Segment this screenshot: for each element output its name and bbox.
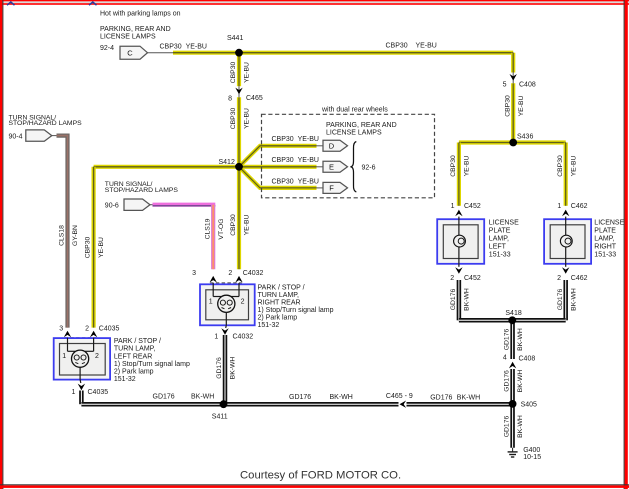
svg-text:LAMP,: LAMP,: [594, 236, 614, 243]
svg-text:2: 2: [450, 275, 454, 282]
svg-text:S412: S412: [219, 159, 235, 166]
labels GD176 BK-WH S405 to ground: [504, 415, 525, 438]
svg-text:151-32: 151-32: [114, 376, 136, 383]
svg-text:BK-WH: BK-WH: [517, 370, 524, 393]
svg-text:YE-BU: YE-BU: [518, 96, 525, 117]
connector 90-6: [124, 199, 150, 210]
arrow into C408 bottom: [509, 362, 516, 369]
svg-text:C4035: C4035: [88, 389, 109, 396]
svg-text:C4035: C4035: [99, 326, 120, 333]
labels CBP30 YE-BU to right rear lamp: [230, 214, 251, 236]
svg-text:5: 5: [503, 82, 507, 89]
svg-text:S411: S411: [212, 414, 228, 421]
lamp element left license: [454, 217, 466, 264]
svg-text:1: 1: [209, 299, 213, 306]
blue chevron mark right on top border: [89, 2, 97, 5]
license plate lamp left box: [437, 219, 484, 264]
wire GD176 BK-WH C408 down through S405 to ground: [510, 369, 515, 448]
arrow pin 1 C4035: [78, 384, 85, 391]
splice S441: [235, 49, 243, 57]
svg-text:CBP30: CBP30: [557, 155, 564, 177]
svg-text:CBP30: CBP30: [85, 237, 92, 259]
dashed connector line C4032: [210, 282, 242, 284]
connector D: [323, 140, 348, 151]
svg-text:LICENSE: LICENSE: [489, 220, 519, 227]
connector E: [323, 161, 348, 172]
lead below left license lamp: [458, 264, 460, 267]
wire CBP30 YE-BU C465 down to S412: [237, 97, 241, 167]
lead from connector 90-4: [52, 135, 59, 137]
wire CLS19 VT-OG down to right rear lamp pin 3: [211, 205, 215, 270]
blue chevron mark left on top border: [7, 2, 15, 5]
svg-text:92-6: 92-6: [362, 164, 376, 171]
svg-text:PARK / STOP /: PARK / STOP /: [114, 338, 161, 345]
svg-text:CBP30: CBP30: [230, 62, 237, 84]
wire CBP30 YE-BU S412 down to right rear lamp pin 2: [237, 167, 241, 269]
svg-text:C452: C452: [464, 203, 481, 210]
svg-text:YE-BU: YE-BU: [98, 237, 105, 258]
lamp element right license: [560, 217, 572, 264]
page frame red border right: [624, 0, 628, 489]
labels CLS18 GY-BN: [59, 225, 80, 246]
wire CLS19 VT-OG horizontal: [153, 205, 216, 206]
wire CBP30 YE-BU S441 down to C465: [237, 53, 241, 86]
svg-text:1) Stop/Turn signal lamp: 1) Stop/Turn signal lamp: [258, 307, 334, 314]
svg-text:CLS18: CLS18: [59, 225, 66, 246]
svg-text:3: 3: [192, 270, 196, 277]
arrow pin 2 C4032: [235, 276, 242, 283]
svg-text:YE-BU: YE-BU: [244, 62, 251, 83]
arrow pin 1 C462: [562, 210, 569, 217]
labels GD176 BK-WH C408 to S405: [504, 370, 525, 393]
svg-text:TURN LAMP,: TURN LAMP,: [258, 292, 300, 299]
svg-text:F: F: [329, 184, 334, 193]
svg-text:LICENSE: LICENSE: [594, 220, 624, 227]
text park stop turn left rear: [114, 338, 190, 383]
lead into connector F: [317, 187, 323, 189]
splice S418: [508, 316, 516, 324]
svg-text:STOP/HAZARD LAMPS: STOP/HAZARD LAMPS: [9, 120, 83, 127]
license plate lamp right box: [544, 219, 591, 264]
svg-text:STOP/HAZARD LAMPS: STOP/HAZARD LAMPS: [105, 187, 179, 194]
svg-text:1: 1: [451, 203, 455, 210]
svg-text:92-4: 92-4: [100, 45, 114, 52]
labels CBP30 YE-BU left branch: [85, 237, 106, 259]
wire GD176 BK-WH below left rear lamp: [79, 391, 84, 405]
brace grouping D E F: [350, 142, 356, 193]
svg-text:BK-WH: BK-WH: [330, 394, 353, 401]
svg-text:BK-WH: BK-WH: [191, 394, 214, 401]
text license plate lamp left: [489, 220, 519, 259]
svg-text:2: 2: [228, 270, 232, 277]
splice S412: [235, 163, 243, 171]
svg-text:CBP30: CBP30: [230, 214, 237, 236]
arrow into C465-9: [400, 401, 407, 408]
svg-text:151-33: 151-33: [594, 252, 616, 259]
page frame red border top: [0, 0, 629, 5]
svg-text:GD176: GD176: [216, 357, 223, 379]
wire CBP30 YE-BU from C to S441 to corner: [173, 51, 513, 55]
svg-text:C452: C452: [464, 275, 481, 282]
svg-text:GD176: GD176: [504, 329, 511, 351]
svg-text:C462: C462: [571, 275, 588, 282]
svg-text:S405: S405: [521, 402, 537, 409]
svg-text:LICENSE LAMPS: LICENSE LAMPS: [326, 130, 382, 137]
svg-text:C4032: C4032: [243, 270, 264, 277]
svg-text:LICENSE LAMPS: LICENSE LAMPS: [100, 33, 156, 40]
svg-text:VT-OG: VT-OG: [218, 218, 225, 239]
labels GD176 BK-WH S418 to C408: [504, 328, 525, 351]
connector 90-4: [26, 130, 52, 141]
svg-text:Hot with parking lamps on: Hot with parking lamps on: [100, 11, 181, 18]
lead from connector 90-6: [150, 204, 154, 206]
svg-text:2) Park lamp: 2) Park lamp: [114, 369, 154, 376]
dashed connector line C4035: [65, 337, 97, 339]
svg-text:CBP30 YE-BU: CBP30 YE-BU: [272, 178, 319, 185]
svg-text:TURN LAMP,: TURN LAMP,: [114, 346, 156, 353]
svg-text:151-33: 151-33: [489, 252, 511, 259]
svg-text:PARK / STOP /: PARK / STOP /: [258, 284, 305, 291]
wire CBP30 YE-BU branch to connector E: [239, 165, 317, 169]
svg-text:LEFT: LEFT: [489, 244, 507, 251]
svg-text:1: 1: [71, 389, 75, 396]
park stop turn lamp left rear box: [54, 338, 110, 380]
lead below right rear lamp: [225, 325, 228, 328]
svg-text:C408: C408: [519, 81, 536, 88]
labels CBP30 YE-BU above C465: [230, 62, 251, 84]
labels CLS19 VT-OG: [204, 218, 225, 239]
svg-text:CBP30: CBP30: [230, 108, 237, 130]
svg-text:C462: C462: [571, 203, 588, 210]
svg-text:D: D: [329, 141, 335, 150]
wire CBP30 YE-BU S436 branch horizontal: [459, 140, 566, 144]
svg-text:1: 1: [557, 203, 561, 210]
svg-text:GD176: GD176: [557, 289, 564, 311]
svg-text:RIGHT REAR: RIGHT REAR: [258, 299, 301, 306]
lead into connector E: [317, 166, 323, 168]
svg-text:CBP30 YE-BU: CBP30 YE-BU: [272, 157, 319, 164]
svg-text:C: C: [127, 48, 133, 57]
svg-text:90-4: 90-4: [9, 134, 23, 141]
lead through C408: [512, 73, 514, 84]
arrow pin 1 C4032: [221, 328, 228, 335]
lead into connector D: [317, 145, 323, 147]
svg-text:2: 2: [557, 275, 561, 282]
svg-text:CBP30: CBP30: [504, 95, 511, 117]
labels GD176 BK-WH below right license: [557, 288, 578, 311]
svg-text:GY-BN: GY-BN: [72, 225, 79, 246]
arrow pin 2 C462: [562, 267, 569, 274]
svg-text:CBP30 YE-BU: CBP30 YE-BU: [160, 43, 207, 50]
svg-text:PARKING, REAR AND: PARKING, REAR AND: [326, 122, 397, 129]
arrow into C408 top: [510, 74, 517, 81]
svg-text:GD176: GD176: [289, 394, 311, 401]
lead below left rear lamp: [79, 380, 82, 383]
arrow pin 3 C4035: [64, 331, 71, 338]
lamp element left rear: [68, 338, 94, 380]
arrow pin 3 C4032: [210, 276, 217, 283]
labels GD176 BK-WH below left license: [450, 288, 471, 311]
wire CBP30 YE-BU down to right license lamp pin 1: [564, 143, 568, 206]
wire GD176 BK-WH below left license lamp: [457, 280, 462, 320]
svg-text:S436: S436: [517, 133, 533, 140]
svg-text:CLS19: CLS19: [204, 218, 211, 239]
arrow pin 2 C4035: [90, 331, 97, 338]
svg-text:with dual rear wheels: with dual rear wheels: [321, 106, 388, 113]
svg-text:C408: C408: [519, 355, 536, 362]
svg-text:CBP30 YE-BU: CBP30 YE-BU: [272, 136, 319, 143]
svg-text:YE-BU: YE-BU: [244, 215, 251, 236]
wire CBP30 YE-BU down to left rear lamp pin 2: [91, 167, 95, 328]
svg-text:BK-WH: BK-WH: [570, 288, 577, 311]
svg-text:LAMP,: LAMP,: [489, 236, 509, 243]
wire GD176 BK-WH from C465-9 to S405: [407, 402, 513, 407]
splice S411: [220, 400, 228, 408]
svg-text:BK-WH: BK-WH: [230, 357, 237, 380]
svg-text:S418: S418: [505, 310, 521, 317]
svg-text:151-32: 151-32: [258, 322, 280, 329]
svg-text:GD176: GD176: [504, 370, 511, 392]
svg-text:PLATE: PLATE: [489, 228, 511, 235]
wire GD176 BK-WH bottom run to C465-9: [81, 402, 398, 407]
svg-text:C465 - 9: C465 - 9: [386, 393, 413, 400]
lead below right license lamp: [565, 264, 567, 267]
wire CBP30 YE-BU right corner down to C408: [511, 53, 515, 73]
wire GD176 BK-WH below right license lamp: [563, 280, 568, 320]
svg-text:1) Stop/Turn signal lamp: 1) Stop/Turn signal lamp: [114, 361, 190, 368]
connector C from 92-4: [120, 46, 148, 59]
svg-text:RIGHT: RIGHT: [594, 244, 617, 251]
svg-text:LEFT REAR: LEFT REAR: [114, 353, 152, 360]
svg-text:YE-BU: YE-BU: [464, 156, 471, 177]
svg-text:1: 1: [62, 353, 66, 360]
svg-text:4: 4: [503, 355, 507, 362]
svg-text:8: 8: [228, 95, 232, 102]
svg-text:10-15: 10-15: [523, 454, 541, 461]
arrow into C465: [235, 88, 242, 95]
svg-text:YE-BU: YE-BU: [570, 156, 577, 177]
wire CLS18 GY-BN to left rear lamp pin 3: [57, 136, 68, 328]
svg-text:2: 2: [95, 353, 99, 360]
park stop turn lamp right rear box: [200, 284, 255, 325]
labels CBP30 YE-BU left license feed: [450, 155, 471, 177]
page frame red border left: [0, 0, 3, 489]
svg-text:CBP30: CBP30: [450, 155, 457, 177]
wire CBP30 YE-BU S412 branch left: [94, 165, 239, 169]
page frame red border bottom: [0, 484, 629, 488]
svg-text:GD176: GD176: [430, 395, 452, 402]
wire GD176 BK-WH S418 down to C408: [510, 320, 515, 359]
svg-text:E: E: [329, 162, 334, 171]
svg-text:BK-WH: BK-WH: [464, 288, 471, 311]
wire CBP30 YE-BU branch to connector D: [239, 146, 317, 167]
svg-text:G400: G400: [523, 447, 540, 454]
labels CBP30 YE-BU below C408: [504, 95, 525, 117]
svg-text:YE-BU: YE-BU: [244, 108, 251, 129]
arrow pin 2 C452: [455, 267, 462, 274]
lamp element right rear: [213, 283, 239, 325]
wire CBP30 YE-BU branch to connector F: [239, 167, 317, 188]
lead through C465: [238, 86, 240, 97]
ground G400: [508, 448, 518, 457]
svg-text:3: 3: [59, 326, 63, 333]
text park stop turn right rear: [258, 284, 334, 329]
svg-text:S441: S441: [227, 35, 243, 42]
svg-text:1: 1: [214, 333, 218, 340]
svg-text:PLATE: PLATE: [594, 228, 616, 235]
dashed box with dual rear wheels: [262, 114, 435, 198]
labels CBP30 YE-BU right license feed: [557, 155, 578, 177]
svg-text:BK-WH: BK-WH: [517, 415, 524, 438]
svg-text:PARKING, REAR AND: PARKING, REAR AND: [100, 26, 171, 33]
svg-text:2: 2: [241, 299, 245, 306]
connector F: [323, 182, 348, 193]
lead from connector C: [146, 52, 174, 54]
svg-text:2: 2: [85, 326, 89, 333]
svg-text:BK-WH: BK-WH: [517, 328, 524, 351]
splice S405: [509, 400, 517, 408]
svg-text:2) Park lamp: 2) Park lamp: [258, 314, 298, 321]
svg-text:CBP30 YE-BU: CBP30 YE-BU: [386, 42, 437, 49]
wire CBP30 YE-BU C408 down to S436: [511, 83, 515, 142]
wire GD176 BK-WH below right rear lamp: [223, 335, 228, 404]
svg-text:GD176: GD176: [153, 394, 175, 401]
splice S436: [509, 139, 517, 147]
svg-text:BK-WH: BK-WH: [457, 395, 480, 402]
arrow pin 1 C452: [455, 210, 462, 217]
text license plate lamp right: [594, 220, 624, 259]
wire GD176 BK-WH joining at S418: [459, 318, 566, 323]
labels CBP30 YE-BU below C465: [230, 108, 251, 130]
wire CBP30 YE-BU down to left license lamp pin 1: [457, 143, 461, 206]
svg-text:C465: C465: [246, 95, 263, 102]
svg-text:GD176: GD176: [504, 416, 511, 438]
svg-text:Courtesy of FORD MOTOR CO.: Courtesy of FORD MOTOR CO.: [240, 470, 401, 482]
svg-text:90-6: 90-6: [105, 203, 119, 210]
svg-text:GD176: GD176: [450, 289, 457, 311]
labels GD176 BK-WH below right rear lamp: [216, 357, 237, 380]
svg-text:C4032: C4032: [233, 333, 254, 340]
